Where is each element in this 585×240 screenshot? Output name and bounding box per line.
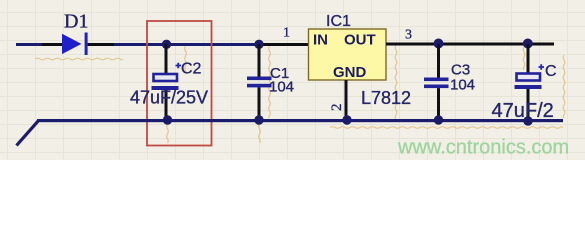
svg-text:47uF/25V: 47uF/25V <box>130 88 208 108</box>
node dot bottom C1 <box>254 115 263 124</box>
background paper <box>0 0 585 160</box>
node dot bottom C4 <box>523 116 532 125</box>
wire: top rail left stub <box>16 43 42 46</box>
node GND junction dot <box>342 115 351 124</box>
wire: top rail to C1 node <box>114 43 260 46</box>
svg-text:104: 104 <box>269 79 294 96</box>
vertical squiggle near C4 <box>523 47 525 70</box>
svg-text:3: 3 <box>405 28 412 43</box>
wire: C3 bottom lead <box>437 88 440 120</box>
red highlight rectangle around C2 <box>147 21 212 146</box>
capacitor C4 (electrolytic) <box>515 74 542 90</box>
svg-text:2: 2 <box>329 104 345 112</box>
svg-text:D1: D1 <box>64 11 88 33</box>
wire: anode segment to D1 <box>42 43 63 46</box>
op-amp U1 body: regulator IC1 box <box>309 29 387 80</box>
wire: C2 top lead <box>165 44 168 74</box>
wire: C3 top lead <box>437 44 440 78</box>
vertical squiggle near C2 <box>185 46 187 73</box>
capacitor C3 <box>424 78 449 89</box>
background grid <box>0 0 585 160</box>
svg-text:IN: IN <box>313 32 328 49</box>
svg-text:47uF/2: 47uF/2 <box>492 100 554 122</box>
capacitor C2 (electrolytic) <box>152 74 179 90</box>
node dot bottom C2 <box>163 115 172 124</box>
node dot bottom C3 <box>434 115 443 124</box>
vertical squiggle right of IC1 <box>395 45 397 120</box>
svg-text:IC1: IC1 <box>326 13 351 30</box>
wire: top rail C1 node to IC1 pin 1 <box>260 43 309 46</box>
svg-text:104: 104 <box>450 77 475 94</box>
svg-text:C2: C2 <box>181 61 202 78</box>
wire: bottom rail diagonal <box>17 121 39 146</box>
wire: C1 top lead <box>258 44 261 77</box>
node A junction dot (C2 top) <box>162 40 171 49</box>
wire: C1 bottom lead <box>258 87 261 120</box>
svg-text:GND: GND <box>333 64 367 81</box>
C4 plus sign <box>539 64 545 69</box>
wire: C4 top lead <box>527 44 530 73</box>
wire: cathode segment black <box>88 43 115 46</box>
squiggle under bottom wire <box>330 127 563 129</box>
vertical squiggle right edge <box>563 55 565 118</box>
wire: C2 bottom lead <box>165 90 168 120</box>
capacitor C1 <box>247 77 272 88</box>
svg-text:C: C <box>545 63 557 80</box>
node D junction dot (C4 top) <box>523 39 533 49</box>
svg-text:www.cntronics.com: www.cntronics.com <box>397 137 569 159</box>
squiggle below node A <box>167 124 169 143</box>
vertical squiggle near C1 <box>269 46 271 118</box>
node B junction dot (C1 top) <box>254 40 263 49</box>
squiggle below node B <box>259 124 261 143</box>
svg-text:OUT: OUT <box>344 32 376 49</box>
wire: output rail <box>386 43 554 46</box>
diode D1 <box>62 33 88 56</box>
wire: bottom rail <box>37 119 563 122</box>
C2 plus sign <box>176 63 182 68</box>
wire: C4 bottom lead <box>527 89 530 122</box>
node C junction dot (C3 top) <box>434 39 444 49</box>
svg-text:1: 1 <box>283 26 290 41</box>
wire: IC1 GND lead <box>345 80 348 120</box>
svg-text:L7812: L7812 <box>361 88 411 108</box>
squiggle under left wire <box>35 58 123 60</box>
